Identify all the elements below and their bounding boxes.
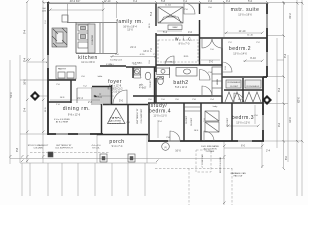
svg-text:bedrm.3: bedrm.3 [232,115,254,121]
svg-text:9'-10: 9'-10 [250,57,256,60]
svg-text:11'-4 x 15'-0: 11'-4 x 15'-0 [81,61,95,64]
svg-text:ROOF O.H. LINE: ROOF O.H. LINE [220,156,222,173]
svg-text:4'-0: 4'-0 [188,31,193,34]
svg-text:LDG: LDG [42,11,47,13]
svg-text:11'-0 x 11'-0: 11'-0 x 11'-0 [153,115,167,118]
svg-text:AT 8'-0 HIGH: AT 8'-0 HIGH [56,121,69,124]
svg-text:6" WALL: 6" WALL [166,61,175,64]
svg-text:5'-4: 5'-4 [150,11,153,16]
svg-text:4'-6: 4'-6 [208,0,213,3]
svg-text:11'-10: 11'-10 [247,35,253,37]
svg-text:5'-4: 5'-4 [163,31,168,34]
svg-text:5'-0: 5'-0 [98,96,103,99]
svg-text:16'-0: 16'-0 [175,150,181,153]
svg-text:5'-6: 5'-6 [248,0,253,3]
svg-text:mstr. suite: mstr. suite [231,7,260,13]
svg-text:bkfst: bkfst [98,75,103,78]
svg-text:5'-8 x 11'-6: 5'-8 x 11'-6 [175,86,188,89]
svg-text:21'-4: 21'-4 [77,97,83,100]
svg-text:13'-0 x 14'-0: 13'-0 x 14'-0 [233,53,247,56]
svg-text:12'-0: 12'-0 [289,117,292,123]
svg-text:ATTIC: ATTIC [112,117,118,120]
svg-text:8'-0: 8'-0 [285,155,288,160]
svg-text:8'-0 x 7'-0: 8'-0 x 7'-0 [179,43,190,46]
svg-text:51'-0: 51'-0 [10,92,13,98]
svg-text:SEAT: SEAT [172,26,178,29]
svg-text:PANTRY: PANTRY [58,68,67,71]
svg-text:m. tub: m. tub [165,4,172,7]
svg-text:13'-0: 13'-0 [143,50,149,53]
svg-text:12'-10: 12'-10 [104,0,111,3]
svg-text:ST COL: ST COL [92,148,100,150]
svg-text:CLOSET: CLOSET [227,117,229,126]
svg-text:SHOWER: SHOWER [166,16,176,18]
svg-text:4'-2: 4'-2 [278,122,281,127]
svg-text:CLOSET: CLOSET [191,117,193,126]
svg-text:9'-4: 9'-4 [24,29,27,34]
svg-text:62'-0: 62'-0 [298,97,301,103]
svg-text:ROD: ROD [184,56,189,58]
svg-text:ROD&SHELF: ROD&SHELF [228,82,241,84]
svg-text:21'-4: 21'-4 [130,46,136,49]
svg-text:COLUMN: COLUMN [33,148,43,150]
svg-text:16'-0: 16'-0 [24,79,27,85]
svg-text:5'-0: 5'-0 [119,100,124,103]
svg-text:5'-0: 5'-0 [209,61,214,64]
svg-text:6'-0: 6'-0 [241,145,246,148]
svg-text:13'-0 x 19'-0: 13'-0 x 19'-0 [238,14,252,17]
svg-text:CLOSET: CLOSET [230,86,239,88]
svg-text:ALL DOOR IN: ALL DOOR IN [203,148,217,151]
svg-text:TO 10'-0: TO 10'-0 [110,91,120,94]
svg-text:5'-4: 5'-4 [24,107,27,112]
svg-text:2'-6: 2'-6 [88,101,93,104]
svg-text:GARBAGE CAN: GARBAGE CAN [230,172,246,175]
svg-text:3'-2: 3'-2 [183,0,188,3]
svg-text:8'-4: 8'-4 [24,57,27,62]
svg-text:COUNTER: COUNTER [92,34,94,45]
svg-text:7'-0: 7'-0 [150,47,153,52]
svg-text:bedrm.2: bedrm.2 [229,46,251,52]
svg-text:PAD 4'x8': PAD 4'x8' [234,175,243,178]
svg-text:1 HR. FIRE RATED: 1 HR. FIRE RATED [201,145,220,148]
svg-text:family rm.: family rm. [116,19,143,25]
svg-text:3'-0 SQ CLG: 3'-0 SQ CLG [110,60,122,62]
svg-text:9'-8 x 12'-6: 9'-8 x 12'-6 [68,114,81,117]
svg-text:4" CONC PAD: 4" CONC PAD [201,154,204,168]
svg-text:dining rm.: dining rm. [63,106,90,112]
svg-text:11'-10: 11'-10 [239,30,246,33]
svg-text:3'-4: 3'-4 [133,0,138,3]
svg-text:40'-0 3/4": 40'-0 3/4" [70,0,81,3]
svg-text:9'-4 x 7'-4: 9'-4 x 7'-4 [112,145,123,148]
svg-text:ACCESS: ACCESS [111,120,120,123]
svg-text:9'-4: 9'-4 [226,0,231,3]
svg-text:ROD&SHELF: ROD&SHELF [247,86,260,88]
svg-text:2'-4: 2'-4 [266,150,271,153]
svg-text:5'-8: 5'-8 [161,0,166,3]
svg-text:13'-0: 13'-0 [127,29,133,32]
svg-text:LINEN: LINEN [217,78,219,85]
svg-text:3'-4: 3'-4 [278,87,281,92]
svg-text:CLOSER: CLOSER [206,151,215,153]
svg-text:19'-2: 19'-2 [289,13,292,19]
svg-text:BUTTERFLY ST: BUTTERFLY ST [137,108,139,124]
svg-text:STUCCO WAINSCOT: STUCCO WAINSCOT [28,144,49,147]
svg-text:13'-0 x 12'-0: 13'-0 x 12'-0 [236,122,250,125]
svg-text:(2): (2) [164,147,167,149]
svg-text:COL SUPPORT: COL SUPPORT [141,108,143,124]
svg-text:9'-8: 9'-8 [16,147,19,152]
svg-text:6' WALL: 6' WALL [106,63,115,66]
svg-text:COL SUPPORT 2T: COL SUPPORT 2T [55,148,73,150]
svg-text:9'-4: 9'-4 [284,53,287,58]
svg-text:4'-6x5': 4'-6x5' [139,87,147,90]
svg-text:TOILET: TOILET [150,80,152,88]
svg-text:CLOSET: CLOSET [186,115,188,124]
